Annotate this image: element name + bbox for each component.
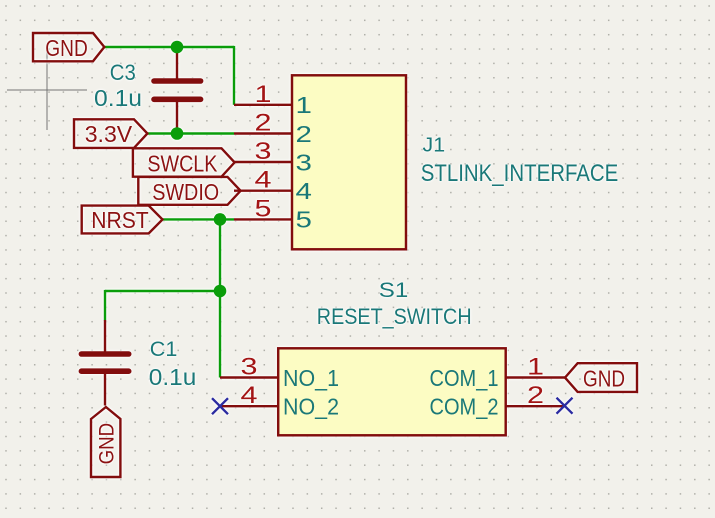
svg-text:NRST: NRST	[91, 207, 149, 233]
capacitor C1	[81, 320, 128, 406]
svg-text:NO_2: NO_2	[283, 394, 339, 420]
svg-text:GND: GND	[45, 35, 88, 61]
global label GND (right)	[565, 363, 637, 392]
svg-text:C1: C1	[150, 338, 178, 361]
svg-text:3: 3	[296, 149, 312, 175]
wire to C1	[105, 290, 220, 292]
svg-text:J1: J1	[423, 134, 446, 157]
svg-text:1: 1	[527, 354, 544, 381]
svg-text:C3: C3	[110, 60, 136, 85]
svg-text:2: 2	[527, 382, 544, 409]
wire C1 drop	[104, 290, 106, 321]
S1 pin NO_1	[220, 376, 278, 378]
svg-text:S1: S1	[379, 278, 409, 302]
junction at C1 branch	[214, 285, 227, 298]
svg-text:STLINK_INTERFACE: STLINK_INTERFACE	[421, 160, 619, 187]
wire 3.3V to pin 2	[147, 132, 234, 134]
connector J1 body	[292, 75, 406, 249]
svg-text:2: 2	[255, 110, 272, 137]
svg-text:5: 5	[296, 207, 312, 233]
svg-text:3.3V: 3.3V	[85, 121, 133, 147]
svg-text:1: 1	[255, 81, 272, 108]
no-connect X at S1 COM_2	[557, 398, 573, 414]
svg-text:GND: GND	[96, 423, 119, 465]
switch S1 body	[278, 348, 506, 435]
global label NRST	[82, 206, 163, 234]
junction at GND wire	[171, 41, 184, 54]
wire down to pin 1	[233, 46, 235, 105]
svg-text:3: 3	[255, 138, 272, 165]
J1 pin 4	[234, 189, 292, 191]
svg-text:NO_1: NO_1	[283, 365, 339, 391]
svg-text:RESET_SWITCH: RESET_SWITCH	[317, 304, 472, 329]
svg-text:GND: GND	[583, 366, 625, 392]
junction at NRST wire	[214, 213, 227, 226]
J1 pin 5	[234, 218, 292, 220]
svg-text:2: 2	[296, 121, 312, 147]
global label 3.3V	[74, 119, 147, 148]
wire GND to corner	[104, 46, 234, 48]
global label SWDIO	[138, 177, 240, 205]
svg-text:COM_1: COM_1	[430, 365, 499, 391]
sheet origin crosshair	[7, 46, 87, 130]
svg-text:SWDIO: SWDIO	[152, 179, 219, 205]
S1 pin COM_2	[506, 405, 565, 407]
svg-text:1: 1	[296, 92, 312, 118]
svg-text:4: 4	[255, 167, 272, 194]
junction at 3.3V wire	[171, 127, 184, 140]
global label SWCLK	[133, 148, 235, 176]
svg-text:3: 3	[241, 354, 258, 381]
J1 pin 3	[234, 161, 292, 163]
wire NRST to pin 5	[163, 218, 235, 220]
svg-text:4: 4	[296, 178, 313, 204]
S1 pin COM_1	[506, 376, 565, 378]
svg-text:SWCLK: SWCLK	[147, 151, 217, 177]
S1 pin NO_2	[220, 405, 278, 407]
J1 pin 2	[234, 132, 292, 134]
J1 pin 1	[234, 104, 292, 106]
svg-text:4: 4	[241, 382, 258, 409]
power symbol GND (below C1)	[91, 407, 120, 477]
capacitor C3	[154, 47, 201, 134]
svg-text:0.1u: 0.1u	[149, 364, 197, 390]
svg-text:0.1u: 0.1u	[94, 85, 142, 111]
no-connect X at S1 NO_2	[212, 398, 228, 414]
wire down to S1 pin 3	[219, 219, 221, 377]
svg-text:COM_2: COM_2	[430, 394, 499, 420]
svg-text:5: 5	[255, 195, 272, 222]
global label GND (top left)	[33, 33, 104, 61]
